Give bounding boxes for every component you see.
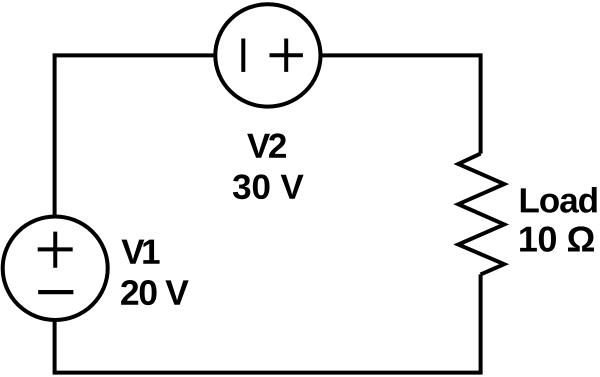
resistor Load (zigzag body) [458, 154, 504, 275]
V1 minus sign [38, 290, 73, 294]
voltage source V1 (circle body) [3, 217, 108, 321]
label Load value 10 &#937; [520, 226, 594, 251]
V2 plus sign [270, 39, 303, 72]
label V2 value 30 V [233, 174, 304, 199]
wire: top side, from top-left corner to top-right corner (passes under V2) [55, 53, 481, 57]
V1 plus sign [38, 232, 73, 268]
V2 negative terminal bar [241, 39, 245, 72]
wire: left side, from top-left corner down to bottom-left corner (passes under V1) [53, 53, 57, 372]
voltage source V2 (circle body) [215, 4, 320, 106]
wire: right side upper segment, top-right corner down to resistor [479, 53, 483, 153]
wire: right side lower segment, resistor down to bottom-right corner [479, 274, 483, 372]
label Load (resistor name) [521, 187, 597, 213]
label V1 value 20 V [121, 280, 189, 305]
label V2 (reference designator) [247, 133, 286, 157]
wire: bottom side, from bottom-left corner to bottom-right corner [53, 371, 483, 375]
label V1 (reference designator) [121, 240, 159, 264]
